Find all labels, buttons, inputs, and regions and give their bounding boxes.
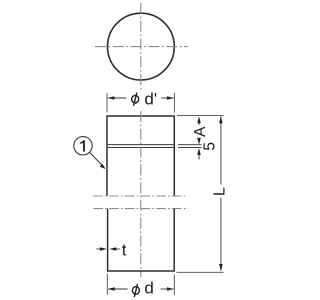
break chain line lower <box>94 208 189 210</box>
vertical centerline (top view) <box>140 3 142 92</box>
dimension phi d extension line right <box>173 275 175 296</box>
seam line lower <box>107 147 174 149</box>
dimension L line lower segment <box>220 198 222 271</box>
bottom extension line for L <box>176 271 223 273</box>
vertical centerline (front view) <box>140 111 142 277</box>
dimension L arrow down <box>219 264 223 271</box>
dimension phi d arrow right <box>167 287 174 291</box>
dimension A line lower tail <box>198 140 200 143</box>
dimension A line upper tail <box>198 123 200 126</box>
svg-text:5: 5 <box>201 142 218 151</box>
pipe left edge <box>107 209 109 271</box>
label phi (of phi d') drawn as oval + slanted stroke <box>132 93 139 106</box>
seam line upper <box>107 144 174 146</box>
dimension phi d' extension line right <box>173 93 175 113</box>
pipe bottom edge <box>107 270 175 272</box>
dimension A arrow down <box>197 138 201 145</box>
dimension L arrow up <box>219 116 223 123</box>
dimension phi d' line right segment <box>161 97 173 99</box>
cap body left edge <box>106 115 108 196</box>
dimension L line upper segment <box>220 116 222 184</box>
dimension phi d' line left segment <box>108 97 127 99</box>
dimension 5 arrow up (below seam) <box>197 148 201 155</box>
balloon label 1 <box>80 140 85 151</box>
balloon circle 1 <box>74 137 92 155</box>
svg-text:d: d <box>144 279 153 298</box>
label A (rotated) <box>192 126 209 137</box>
dimension t right tail <box>116 248 120 250</box>
cap body (socket) top edge <box>107 115 174 117</box>
dimension phi d extension line left <box>106 274 108 296</box>
leader arrowhead <box>100 164 106 169</box>
dimension phi d line left segment <box>108 288 127 290</box>
dimension t left tail <box>96 248 101 250</box>
break chain line upper <box>94 195 189 197</box>
horizontal centerline (top view) <box>95 46 188 48</box>
dimension phi d' arrow right <box>167 96 174 100</box>
dimension phi d line right segment <box>161 288 174 290</box>
dimension A arrow up <box>197 116 201 123</box>
leader line from balloon <box>90 152 103 165</box>
dimension 5 lower tail <box>198 155 200 160</box>
dimension phi d' extension line left <box>106 93 108 113</box>
svg-text:t: t <box>122 240 127 259</box>
seam extension line lower <box>178 147 202 149</box>
label 5 (rotated) <box>201 142 218 151</box>
top extension line for A and L <box>177 115 224 117</box>
dimension t arrow right <box>109 247 116 251</box>
seam extension line upper <box>178 144 202 146</box>
svg-text:L: L <box>212 187 229 196</box>
cap top view outline circle <box>107 13 174 80</box>
svg-text:A: A <box>192 126 209 137</box>
pipe right edge <box>173 209 175 271</box>
label L (rotated) <box>212 187 229 196</box>
dimension phi d' arrow left <box>107 96 114 100</box>
label phi (of phi d) drawn as oval + slanted stroke <box>132 284 139 297</box>
dimension t arrow left <box>100 247 107 251</box>
dimension phi d arrow left <box>108 287 115 291</box>
svg-text:d': d' <box>144 89 157 108</box>
cap body right edge <box>173 115 175 196</box>
